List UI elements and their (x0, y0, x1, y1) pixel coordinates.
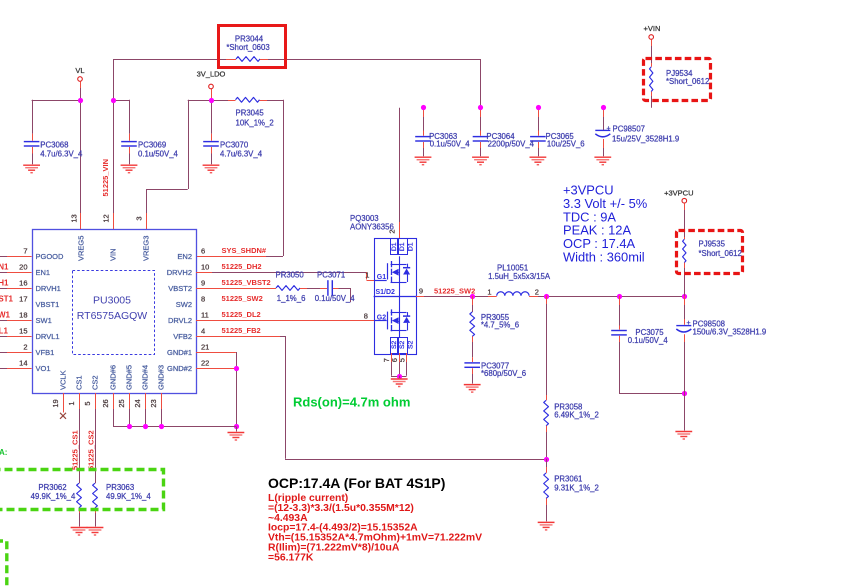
svg-text:49.9K_1%_4: 49.9K_1%_4 (31, 492, 76, 501)
svg-text:10K_1%_2: 10K_1%_2 (236, 118, 274, 127)
svg-text:W1: W1 (0, 311, 11, 320)
svg-text:G1: G1 (377, 274, 386, 281)
svg-text:Width : 360mil: Width : 360mil (563, 250, 645, 265)
svg-text:7: 7 (23, 247, 27, 256)
svg-text:EN2: EN2 (177, 252, 192, 261)
svg-text:12: 12 (102, 214, 111, 222)
svg-text:VREG5: VREG5 (77, 236, 86, 261)
svg-text:6.49K_1%_2: 6.49K_1%_2 (554, 410, 599, 419)
svg-text:9.31K_1%_2: 9.31K_1%_2 (554, 483, 599, 492)
svg-text:8: 8 (364, 311, 368, 320)
svg-text:G2: G2 (377, 315, 386, 322)
svg-text:VCLK: VCLK (59, 370, 68, 390)
svg-text:S2: S2 (407, 340, 414, 349)
svg-text:PR3063: PR3063 (106, 483, 134, 492)
svg-text:18: 18 (19, 311, 27, 320)
svg-text:0.1u/50V_4: 0.1u/50V_4 (628, 336, 669, 345)
svg-text:PU3005: PU3005 (93, 295, 131, 307)
svg-text:0.1u/50V_4: 0.1u/50V_4 (315, 294, 356, 303)
svg-text:25: 25 (117, 399, 126, 407)
svg-text:5: 5 (398, 358, 407, 362)
svg-text:4.7u/6.3V_4: 4.7u/6.3V_4 (40, 149, 83, 158)
svg-text:VIN: VIN (109, 248, 118, 261)
svg-text:GND#1: GND#1 (167, 348, 192, 357)
svg-text:+: + (607, 125, 611, 132)
svg-text:51225_CS2: 51225_CS2 (87, 430, 96, 470)
svg-text:23: 23 (149, 399, 158, 407)
svg-text:14: 14 (19, 359, 27, 368)
svg-text:10: 10 (201, 263, 209, 272)
svg-text:*Short_0612: *Short_0612 (699, 249, 742, 258)
svg-text:4.7u/6.3V_4: 4.7u/6.3V_4 (220, 149, 263, 158)
svg-text:2: 2 (388, 229, 397, 233)
svg-text:RT6575AGQW: RT6575AGQW (77, 310, 148, 322)
svg-text:+3VPCU: +3VPCU (664, 189, 693, 198)
svg-text:OCP:17.4A (For BAT 4S1P): OCP:17.4A (For BAT 4S1P) (268, 475, 445, 491)
svg-text:9: 9 (201, 279, 205, 288)
svg-text:1_1%_6: 1_1%_6 (277, 294, 306, 303)
svg-text:DRVL1: DRVL1 (36, 332, 60, 341)
svg-text:2: 2 (23, 343, 27, 352)
svg-text:24: 24 (133, 399, 142, 407)
svg-text:VBST2: VBST2 (168, 284, 192, 293)
svg-text:1: 1 (487, 287, 491, 296)
svg-text:26: 26 (101, 399, 110, 407)
svg-text:PC3069: PC3069 (138, 141, 166, 150)
svg-text:1.5uH_5x5x3/15A: 1.5uH_5x5x3/15A (488, 272, 551, 281)
svg-text:8: 8 (201, 295, 205, 304)
svg-text:13: 13 (70, 214, 79, 222)
svg-text:4: 4 (201, 327, 205, 336)
svg-text:21: 21 (201, 343, 209, 352)
svg-text:51225_SW2: 51225_SW2 (434, 286, 475, 295)
svg-text:ST1: ST1 (0, 295, 14, 304)
svg-text:=56.177K: =56.177K (268, 552, 314, 563)
svg-text:16: 16 (19, 279, 27, 288)
svg-text:5: 5 (83, 401, 92, 405)
svg-text:17: 17 (19, 295, 27, 304)
svg-text:VFB1: VFB1 (36, 348, 55, 357)
svg-text:GND#3: GND#3 (157, 365, 166, 390)
svg-text:PR3050: PR3050 (276, 271, 305, 280)
svg-text:1: 1 (67, 401, 76, 405)
svg-text:H1: H1 (0, 279, 9, 288)
svg-text:DRVH1: DRVH1 (36, 284, 61, 293)
svg-text:+VIN: +VIN (644, 24, 661, 33)
svg-text:VBST1: VBST1 (36, 300, 60, 309)
svg-text:Rds(on)=4.7m ohm: Rds(on)=4.7m ohm (293, 395, 410, 410)
svg-text:51225_VBST2: 51225_VBST2 (222, 278, 271, 287)
svg-text:51225_VIN: 51225_VIN (101, 159, 110, 197)
svg-text:VREG3: VREG3 (142, 236, 151, 261)
svg-text:*Short_0603: *Short_0603 (226, 43, 269, 52)
svg-text:150u/6.3V_3528H1.9: 150u/6.3V_3528H1.9 (693, 327, 767, 336)
svg-text:10u/25V_6: 10u/25V_6 (547, 140, 585, 149)
svg-text:GND#2: GND#2 (167, 364, 192, 373)
svg-text:L1: L1 (0, 327, 9, 336)
svg-text:A:: A: (0, 448, 7, 457)
svg-text:CS2: CS2 (91, 375, 100, 390)
svg-text:S2: S2 (391, 340, 398, 349)
svg-text:49.9K_1%_4: 49.9K_1%_4 (106, 492, 151, 501)
svg-text:EN1: EN1 (36, 268, 51, 277)
svg-text:6: 6 (201, 247, 205, 256)
svg-text:GND#4: GND#4 (141, 365, 150, 390)
svg-text:20: 20 (19, 263, 27, 272)
svg-text:3: 3 (135, 216, 144, 220)
svg-text:11: 11 (201, 311, 209, 320)
svg-text:2: 2 (535, 287, 539, 296)
svg-text:VO1: VO1 (36, 364, 51, 373)
svg-text:51225_SW2: 51225_SW2 (222, 294, 263, 303)
svg-text:D1: D1 (399, 242, 406, 251)
svg-text:+: + (687, 320, 691, 327)
svg-text:PGOOD: PGOOD (36, 252, 65, 261)
svg-text:51225_DL2: 51225_DL2 (222, 310, 261, 319)
svg-text:PR3062: PR3062 (38, 483, 66, 492)
svg-text:SW1: SW1 (36, 316, 52, 325)
svg-text:0.1u/50V_4: 0.1u/50V_4 (430, 140, 471, 149)
svg-text:PR3045: PR3045 (236, 108, 265, 117)
svg-text:S2: S2 (399, 340, 406, 349)
svg-text:PC98507: PC98507 (613, 125, 646, 134)
svg-text:SYS_SHDN#: SYS_SHDN# (222, 246, 267, 255)
svg-text:PC3071: PC3071 (317, 271, 345, 280)
svg-text:SW2: SW2 (176, 300, 192, 309)
svg-text:CS1: CS1 (75, 375, 84, 390)
svg-text:VFB2: VFB2 (173, 332, 192, 341)
svg-text:22: 22 (201, 359, 209, 368)
svg-text:9: 9 (419, 287, 423, 296)
svg-text:VL: VL (75, 66, 84, 75)
svg-text:*680p/50V_6: *680p/50V_6 (481, 369, 526, 378)
svg-text:D1: D1 (391, 242, 398, 251)
svg-text:51225_FB2: 51225_FB2 (222, 326, 261, 335)
svg-text:GND#5: GND#5 (125, 365, 134, 390)
svg-text:3V_LDO: 3V_LDO (197, 70, 226, 79)
svg-text:0.1u/50V_4: 0.1u/50V_4 (138, 149, 179, 158)
svg-text:1: 1 (365, 271, 369, 280)
svg-text:19: 19 (51, 399, 60, 407)
svg-text:PC3070: PC3070 (220, 141, 249, 150)
svg-text:D1: D1 (407, 242, 414, 251)
svg-text:PJ9535: PJ9535 (699, 240, 726, 249)
svg-text:GND#6: GND#6 (109, 365, 118, 390)
svg-text:2200p/50V_4: 2200p/50V_4 (488, 140, 535, 149)
svg-text:N1: N1 (0, 263, 9, 272)
svg-text:S1/D2: S1/D2 (376, 289, 396, 296)
svg-text:DRVH2: DRVH2 (167, 268, 192, 277)
svg-text:51225_CS1: 51225_CS1 (71, 430, 80, 470)
svg-text:PC3068: PC3068 (40, 141, 68, 150)
svg-text:PR3061: PR3061 (554, 475, 582, 484)
svg-text:*4.7_5%_6: *4.7_5%_6 (481, 321, 519, 330)
svg-text:*Short_0612: *Short_0612 (666, 77, 709, 86)
svg-text:DRVL2: DRVL2 (168, 316, 192, 325)
svg-text:15: 15 (19, 327, 27, 336)
svg-text:51225_DH2: 51225_DH2 (222, 262, 262, 271)
svg-text:15u/25V_3528H1.9: 15u/25V_3528H1.9 (612, 134, 679, 143)
